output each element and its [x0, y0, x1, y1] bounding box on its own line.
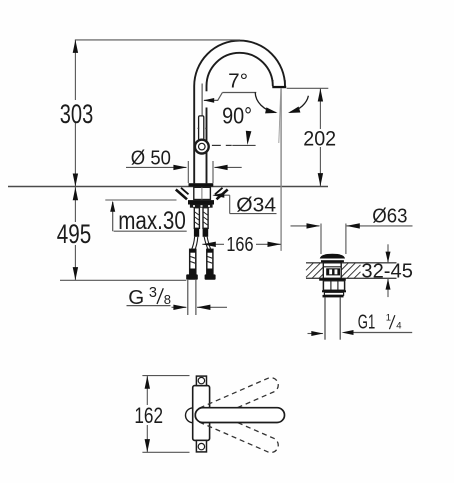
svg-text:Ø 50: Ø 50: [131, 146, 171, 169]
threaded stud upper right: [203, 208, 208, 229]
threaded stud upper left: [194, 208, 199, 229]
top view faucet body: [193, 386, 210, 441]
dimension 495 extension line bottom: [60, 279, 186, 281]
dimension 495: [55, 187, 93, 280]
mounting bracket left wing: [176, 188, 189, 200]
dimension 166: [202, 234, 281, 256]
drain tailpipe: [325, 297, 340, 339]
hose crimp left: [194, 228, 199, 237]
drain plug cap dome: [320, 254, 345, 259]
dimension G3/8 arrows: [172, 305, 228, 310]
drain flange under counter: [319, 278, 346, 280]
svg-text:8: 8: [164, 292, 171, 307]
mounting shank below deck: [194, 187, 211, 199]
dimension 303: [58, 40, 94, 187]
lever pivot ring: [195, 140, 209, 154]
hose crimp right: [203, 228, 209, 237]
drain cap flange: [321, 260, 344, 262]
dimension 303 extension line top: [75, 39, 240, 41]
svg-text:303: 303: [60, 99, 94, 129]
faucet spout arch inner: [207, 53, 273, 86]
top view dashed lever lower position: [193, 406, 281, 455]
hose thread end left: [190, 249, 196, 274]
swivel axis dashed centerline: [212, 144, 256, 146]
riser tube right edge: [206, 86, 208, 183]
dimension D50: [126, 146, 242, 183]
mounting bracket right wing: [215, 188, 228, 200]
svg-text:495: 495: [57, 219, 92, 249]
svg-text:90°: 90°: [222, 102, 252, 128]
svg-text:7°: 7°: [228, 70, 248, 93]
top view cartridge circle: [186, 408, 201, 423]
svg-text:max.30: max.30: [118, 207, 186, 235]
drain body through counter: [323, 263, 341, 279]
top view top tab: [196, 376, 206, 386]
dimension D34 leader: [212, 193, 276, 217]
G3/8 connection pipe: [188, 280, 196, 315]
swivel arc right: [288, 96, 308, 113]
top view bottom tab: [196, 440, 206, 452]
counter section hatched band: [306, 263, 397, 279]
svg-text:202: 202: [303, 127, 336, 151]
label G1 1/4: [353, 311, 412, 334]
flexible hose right: [204, 237, 211, 251]
top view extension line upper: [142, 375, 189, 377]
hose end cap right: [205, 274, 216, 279]
swivel arc left: [255, 92, 277, 113]
dimension 32-45 arrows: [386, 244, 391, 297]
top view extension line lower: [142, 451, 189, 453]
label 32-45: [361, 261, 413, 283]
svg-text:Ø63: Ø63: [372, 204, 407, 227]
spout drip projection line: [279, 88, 281, 251]
dimension G1 1/4 arrows: [308, 330, 354, 336]
drain lower ring: [323, 292, 344, 297]
drain locknut: [323, 281, 344, 291]
label max.30: [110, 201, 187, 235]
faucet spout arch outer: [194, 41, 285, 86]
drain mid ring: [322, 290, 346, 292]
mounting nut: [188, 200, 214, 204]
label G3/8: [127, 285, 171, 309]
svg-text:G1: G1: [358, 311, 375, 334]
svg-text:166: 166: [226, 234, 253, 256]
svg-text:4: 4: [396, 321, 401, 332]
svg-text:32-45: 32-45: [361, 261, 413, 283]
svg-text:3: 3: [149, 285, 157, 301]
spout outlet aerator: [272, 80, 286, 88]
dimension 202: [303, 88, 338, 186]
counter bottom line: [105, 199, 176, 201]
svg-text:Ø34: Ø34: [236, 193, 276, 216]
hose end cap left: [186, 274, 198, 279]
top view dashed lever upper position: [193, 375, 281, 424]
escutcheon base plate: [189, 183, 214, 186]
top view lever handle: [195, 408, 284, 423]
lever stick: [198, 116, 207, 141]
riser tube left edge: [193, 86, 195, 183]
flexible hose left: [191, 237, 198, 251]
svg-text:162: 162: [134, 403, 163, 428]
dimension D63: [291, 204, 413, 254]
lever axis centerline: [201, 84, 203, 117]
label 7deg leader: [203, 70, 256, 103]
label 90deg leader arrow: [222, 102, 252, 145]
hose thread end right: [207, 249, 213, 274]
dimension 202 extension line top: [287, 87, 329, 89]
svg-text:G: G: [128, 286, 144, 309]
knurled ring: [190, 205, 213, 208]
svg-text:1: 1: [386, 313, 391, 324]
counter deck top line: [8, 186, 328, 188]
dimension 162: [132, 376, 164, 453]
